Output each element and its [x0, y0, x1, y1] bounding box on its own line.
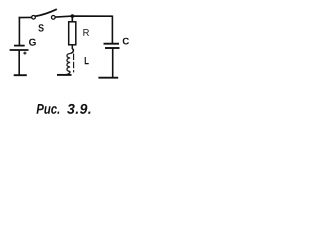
- wire: right vertical from top corner down to capacitor: [111, 16, 113, 44]
- wire: coil bottom to bar: [66, 72, 71, 75]
- inductor L coil (4 left-bulging arcs): [67, 54, 70, 72]
- battery G: long bottom plate: [10, 49, 29, 51]
- switch S: left contact circle: [32, 15, 36, 19]
- wire: top-left horizontal to switch: [19, 16, 32, 18]
- inductor core line (dashed): [73, 54, 75, 73]
- wire: capacitor bottom stub: [112, 48, 114, 78]
- caption: 3.9.: [67, 104, 90, 114]
- battery G: short top plate: [14, 45, 25, 47]
- wire: battery bottom stub: [18, 50, 20, 75]
- switch S: right contact circle: [51, 16, 55, 20]
- bottom bar under inductor: [57, 74, 72, 76]
- resistor R body: [69, 22, 76, 45]
- label L: [85, 57, 89, 64]
- caption: Рис.: [37, 104, 60, 114]
- capacitor C bottom plate: [105, 47, 120, 49]
- capacitor C top plate: [104, 43, 120, 45]
- switch S: blade: [35, 9, 57, 16]
- wire: top horizontal from switch to right corner: [55, 16, 112, 17]
- label C: [123, 38, 129, 45]
- wire: top-left riser: [18, 17, 20, 45]
- label S: [38, 24, 43, 31]
- label R: [83, 29, 89, 36]
- bottom bar left: [14, 74, 27, 76]
- wire: resistor top stub: [71, 16, 73, 22]
- wire: resistor bottom stub to coil: [70, 45, 73, 54]
- label G: [29, 39, 36, 46]
- bottom bar right: [98, 77, 118, 79]
- junction node dot: [71, 14, 75, 18]
- battery polarity + sign: [23, 52, 26, 55]
